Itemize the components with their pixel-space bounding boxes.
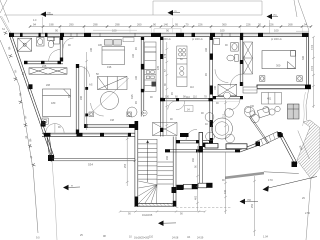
svg-text:PR: PR: [248, 199, 252, 202]
bedroom2 bed: [262, 51, 296, 69]
bath1 door arc: [49, 50, 61, 62]
top dimension ticks: [29, 25, 312, 27]
top-left boundary cross: [0, 0, 9, 23]
svg-text:16x18/25=262: 16x18/25=262: [134, 237, 150, 240]
kitchen strip B stove+sink: [177, 46, 187, 87]
svg-text:130: 130: [165, 96, 170, 99]
svg-text:70: 70: [186, 23, 189, 27]
dashed line below stair: [176, 207, 231, 209]
svg-text:VA: VA: [187, 236, 190, 239]
svg-text:190: 190: [243, 55, 246, 60]
parapet bar bedroom2: [257, 85, 311, 89]
entry arrow A1b (middle top): [168, 10, 181, 16]
top wall window glazing line: [14, 34, 302, 36]
right vertical dims: [196, 146, 199, 211]
right terrace chairs: [245, 106, 280, 116]
bedroom2 west wall: [240, 37, 243, 86]
svg-text:2.50: 2.50: [305, 212, 310, 215]
svg-text:178: 178: [164, 53, 167, 58]
bath2 south wall: [213, 96, 243, 99]
svg-text:95: 95: [175, 23, 178, 27]
terrace benches: [205, 144, 218, 149]
top dimension line: [30, 26, 311, 28]
335 dim line: [298, 131, 310, 160]
interior wall kitchen/hall: [160, 37, 163, 137]
right terrace table: [262, 93, 282, 105]
svg-text:360: 360: [222, 23, 227, 27]
svg-text:226: 226: [269, 23, 274, 27]
entry arrow A2 with P4: [267, 14, 279, 33]
right dim chain: [312, 36, 315, 108]
svg-text:435: 435: [130, 94, 134, 99]
svg-text:400: 400: [195, 195, 198, 200]
svg-text:225: 225: [42, 64, 47, 68]
svg-text:pr 100 LG: pr 100 LG: [271, 38, 282, 41]
kitchen strip A: [145, 42, 157, 91]
svg-text:260: 260: [137, 23, 142, 27]
corridor wall: [160, 98, 212, 101]
stair winder fan: [138, 181, 157, 203]
svg-text:198: 198: [49, 23, 54, 27]
svg-text:298: 298: [115, 23, 120, 27]
svg-text:90: 90: [55, 29, 58, 33]
svg-text:110: 110: [193, 96, 197, 99]
top dimension numbers: [33, 23, 307, 33]
bedroom1 bed: [43, 89, 71, 117]
svg-text:208: 208: [46, 84, 51, 87]
svg-text:AS: AS: [89, 83, 93, 87]
svg-text:196: 196: [107, 65, 112, 69]
bedroom1 wardrobe: [29, 68, 67, 74]
bath1 washer: [54, 38, 60, 45]
bedroom1 door arcs: [46, 124, 64, 133]
svg-text:16x18/25: 16x18/25: [142, 214, 153, 217]
north/entry arrow A1: [41, 12, 54, 34]
arrow A6: [158, 221, 176, 227]
bottom-left exterior wall: [42, 133, 135, 158]
svg-text:110: 110: [149, 236, 154, 239]
svg-text:140: 140: [164, 23, 169, 27]
interior wall hall/bath2: [210, 37, 213, 143]
svg-text:100: 100: [274, 29, 279, 33]
corridor dim numbers: [165, 96, 207, 99]
terrace planter left: [199, 133, 203, 153]
svg-text:30: 30: [258, 23, 261, 27]
svg-text:1.04: 1.04: [263, 236, 268, 239]
bath2 sink: [231, 43, 238, 52]
lower terrace side wall: [199, 152, 202, 184]
bedroom1/hall wall: [76, 64, 79, 134]
svg-text:400: 400: [224, 189, 227, 194]
left boundary dimension line: [0, 16, 57, 240]
svg-text:24.08: 24.08: [172, 237, 179, 240]
hatched slope area bottom-right: [297, 120, 320, 179]
bedroom2 closet: [244, 42, 253, 74]
closet door arc: [79, 66, 90, 77]
svg-text:534: 534: [88, 163, 93, 167]
svg-text:226: 226: [246, 23, 251, 27]
top wall piers: [9, 33, 309, 37]
bedroom2 door arc: [230, 74, 243, 87]
svg-text:160: 160: [205, 47, 208, 52]
svg-text:24.59: 24.59: [197, 237, 204, 240]
bath1 shower: [18, 38, 32, 51]
stairwell: [135, 121, 176, 207]
svg-text:260: 260: [166, 155, 169, 160]
slope arrow A5: [263, 177, 318, 192]
svg-text:298: 298: [93, 23, 98, 27]
svg-text:226: 226: [198, 23, 203, 27]
stair void X box: [153, 123, 178, 136]
living dim chain: [85, 52, 88, 130]
svg-text:100: 100: [112, 29, 117, 33]
svg-text:268: 268: [288, 23, 293, 27]
bottom tiny texts: [36, 197, 310, 240]
bath2 door arc south: [229, 99, 240, 110]
svg-text:198: 198: [90, 47, 93, 52]
terrace south wall: [165, 143, 258, 152]
svg-text:300: 300: [276, 64, 281, 68]
stair up line: [146, 140, 149, 182]
bath1 toilet: [48, 37, 55, 48]
bath2 shower: [214, 39, 220, 45]
svg-text:262: 262: [192, 157, 195, 162]
diagonal wall piers: [28, 84, 54, 161]
svg-text:160: 160: [250, 105, 255, 108]
living window posts: [89, 112, 132, 117]
living X table: [98, 77, 128, 90]
svg-text:170: 170: [268, 178, 273, 182]
living door arc: [91, 103, 104, 116]
living corner armchair: [127, 107, 137, 117]
svg-text:250: 250: [251, 203, 254, 208]
stairwell left dim chain: [126, 133, 129, 186]
upper floor outline line: [4, 1, 262, 15]
svg-text:110: 110: [190, 86, 194, 89]
arrow A4: [240, 199, 259, 205]
interior wall living/kitchen: [141, 37, 144, 117]
svg-text:m: m: [175, 10, 177, 13]
left boundary ticks: [4, 31, 36, 167]
svg-text:10.1: 10.1: [310, 45, 313, 50]
bath2 toilet: [227, 55, 238, 62]
kitchen oven dark: [152, 82, 157, 87]
bath2 door arc: [215, 69, 228, 82]
svg-text:90: 90: [153, 23, 156, 27]
bath2 drain circle: [224, 92, 231, 99]
svg-text:198: 198: [214, 85, 217, 90]
svg-text:278: 278: [157, 65, 160, 70]
svg-text:94: 94: [304, 23, 307, 27]
window labels: [160, 38, 282, 41]
stair treads: [138, 139, 173, 185]
svg-text:m: m: [71, 185, 73, 188]
svg-text:90: 90: [166, 29, 169, 33]
upper area tiny texts: [2, 19, 150, 240]
terrace north wall: [176, 140, 213, 143]
svg-text:180: 180: [135, 75, 138, 80]
closet lines: [84, 67, 87, 128]
lower balcony edge: [52, 158, 135, 161]
svg-text:100: 100: [220, 29, 225, 33]
svg-text:94: 94: [33, 23, 36, 27]
balcony door outline above wall: [93, 29, 181, 33]
bottom dim row: [119, 210, 206, 212]
svg-text:255: 255: [124, 163, 127, 168]
svg-text:pr 100 LG: pr 100 LG: [192, 38, 203, 41]
bath1 sink: [37, 38, 45, 47]
svg-text:298: 298: [80, 95, 83, 100]
left diagonal exterior wall: [10, 36, 54, 158]
terrace diagonal edge: [249, 116, 269, 144]
bedroom2 nightstands: [260, 76, 303, 81]
living tv cabinet: [123, 38, 134, 42]
svg-text:110: 110: [186, 96, 190, 99]
lower level south wall with window piers: [177, 183, 213, 190]
svg-text:180: 180: [98, 44, 103, 47]
terrace chairs: [205, 107, 270, 143]
right exterior wall upper: [307, 37, 309, 86]
grill: [288, 104, 300, 119]
living sofa-bed pillows: [102, 40, 125, 65]
svg-text:300: 300: [302, 55, 305, 60]
right boundary line: [294, 0, 311, 240]
svg-text:290: 290: [69, 23, 74, 27]
witness lines top: [61, 18, 303, 33]
bath1 walls: [24, 37, 63, 64]
hall dim chain: [165, 42, 168, 135]
living round chair: [101, 92, 119, 110]
hall door arc to terrace: [168, 101, 177, 110]
svg-text:180: 180: [51, 101, 56, 105]
arrow A3: [63, 185, 80, 191]
svg-text:160: 160: [132, 53, 135, 58]
svg-text:9.0: 9.0: [36, 237, 40, 240]
bedroom1 nightstand: [42, 118, 48, 124]
living south window wall: [84, 124, 135, 127]
svg-text:198: 198: [110, 119, 115, 122]
svg-text:401: 401: [267, 98, 272, 101]
living long diagonal: [92, 78, 129, 112]
svg-text:10.3: 10.3: [310, 66, 313, 71]
extra dimension numbers scatter: [22, 44, 305, 216]
southeast diagonal wall: [280, 135, 297, 164]
bath2 washer: [218, 84, 237, 96]
lower retaining edge: [225, 172, 264, 179]
step threshold passage: [243, 87, 257, 93]
hall door arc: [63, 38, 74, 49]
left boundary numbers: [7, 46, 33, 142]
external stair ramp: [257, 132, 282, 147]
top exterior wall: [9, 33, 308, 36]
terrace round table: [212, 118, 233, 139]
